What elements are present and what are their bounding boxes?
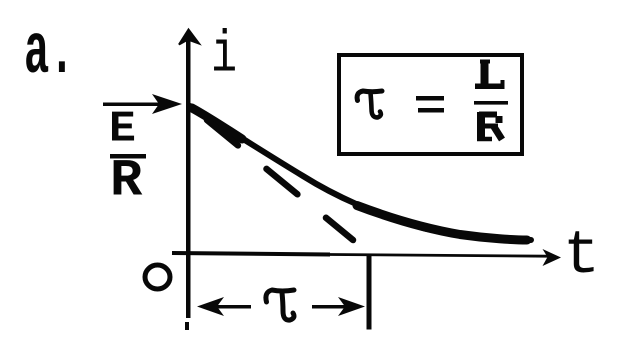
svg-text:t: t — [563, 222, 600, 291]
E/R arrow (initial current marker) — [103, 103, 161, 107]
R (denominator) — [477, 112, 502, 140]
y-axis (i axis) — [186, 38, 191, 318]
fraction bar of L/R — [474, 101, 508, 105]
tau measure left arrow — [213, 305, 251, 309]
fraction bar of E/R — [110, 154, 146, 159]
tau label below axis (hand-drawn) — [266, 290, 294, 320]
svg-text:i: i — [211, 23, 237, 89]
equals sign — [416, 96, 444, 101]
tau measure right arrow — [312, 305, 350, 309]
origin label O — [145, 265, 170, 289]
tau in formula box (hand-drawn) — [357, 91, 382, 117]
svg-text:a.: a. — [24, 12, 75, 94]
tau tick mark on t-axis — [367, 254, 372, 330]
L (numerator) — [475, 60, 505, 86]
y-axis lower dot — [185, 322, 189, 330]
label E (numerator) — [109, 105, 136, 154]
x-axis arrowhead — [543, 249, 562, 266]
curve thick bottom segment — [357, 206, 527, 241]
svg-text:E: E — [109, 105, 136, 154]
svg-text:R: R — [110, 151, 143, 210]
label a. (figure part label) — [24, 12, 75, 94]
label R (denominator) — [110, 151, 143, 210]
x-axis label t — [563, 222, 600, 291]
curve thick start segment — [192, 108, 242, 139]
formula box — [339, 55, 522, 154]
y-axis arrowhead — [179, 30, 199, 45]
x-axis (t axis) — [172, 253, 330, 255]
exponential decay curve of i(t) — [190, 106, 531, 240]
y-axis label i — [211, 23, 237, 89]
dashed tangent line at t=0 — [207, 120, 353, 240]
